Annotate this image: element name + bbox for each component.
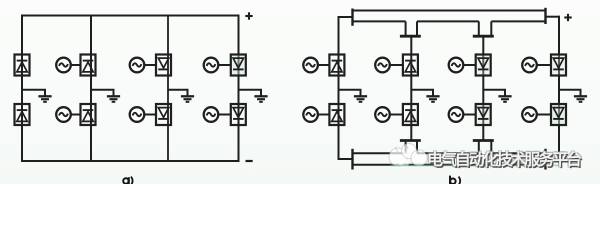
node: bottom bus left end bar: [351, 149, 353, 170]
wire: bottom tap riser left, column 2: [405, 141, 407, 154]
AC source V42 circuit b: [522, 107, 537, 122]
wire: source V42b to converter: [537, 114, 551, 116]
wire: top tap drop left, column 2: [405, 21, 407, 36]
converter box U31 circuit a (down diode): [156, 55, 171, 76]
converter box U32 circuit b (down diode): [476, 104, 491, 125]
wire: bottom tap riser right, column 3: [490, 141, 492, 154]
wire: bottom bus upper line segment 1: [353, 152, 406, 154]
wire: internal vertical bus 3 of circuit a: [167, 16, 169, 162]
ground G4 of circuit a: [239, 90, 268, 102]
ground G2 of circuit a: [91, 90, 120, 102]
converter box U31 circuit b (down diode): [476, 55, 491, 76]
converter box U22 circuit a (up diode): [81, 104, 96, 125]
wire: source V32b to converter: [463, 114, 476, 116]
AC source V21 circuit b: [375, 58, 390, 73]
wire: top tap drop right, column 3: [490, 21, 492, 36]
wire: bottom-left elbow from column 1: [338, 158, 353, 160]
label a): [123, 178, 128, 183]
AC source V32 circuit a: [130, 107, 145, 122]
ground G4 of circuit b: [559, 90, 587, 102]
node: bottom tap bar, column 2: [400, 139, 421, 142]
watermark text: [427, 146, 597, 170]
AC source V22 circuit b: [375, 107, 390, 122]
AC source V42 circuit a: [204, 107, 219, 122]
wire: source V41b to converter: [537, 64, 551, 66]
node: top bus right end bar: [544, 8, 546, 24]
converter box U12 circuit b (up diode): [329, 104, 344, 125]
wire: source V11b to converter: [318, 64, 330, 66]
wire: vertical bus column 4 circuit b: [558, 16, 560, 160]
AC source V11 circuit b: [303, 58, 318, 73]
node: top tap bar, column 3: [473, 35, 494, 38]
wire: source V41a to converter: [218, 64, 231, 66]
wire: vertical bus column 3 circuit b: [482, 36, 484, 140]
AC source V41 circuit b: [522, 58, 537, 73]
wire: source V42a to converter: [218, 114, 231, 116]
wire: source V21b to converter: [390, 64, 403, 66]
wire: internal vertical bus 2 of circuit a: [90, 16, 92, 162]
converter box U21 circuit b (up diode): [403, 55, 418, 76]
wire: source V31b to converter: [463, 64, 476, 66]
wire: bottom tap riser right, column 2: [416, 141, 418, 154]
wire: bottom bus upper line segment 3: [491, 152, 545, 154]
wire: bottom-right elbow from column 4: [546, 158, 561, 160]
wire: bottom bus lower line: [353, 164, 546, 166]
converter box U12 circuit a (up diode): [15, 104, 30, 125]
AC source V12 circuit b: [303, 107, 318, 122]
wire: source V22a to converter: [71, 114, 81, 116]
watermark green underline: [390, 165, 562, 167]
ground G3 of circuit b: [483, 90, 511, 102]
AC source V32 circuit b: [449, 107, 464, 122]
wire: source V21a to converter: [71, 64, 81, 66]
converter box U21 circuit a (up diode): [81, 55, 96, 76]
wire: top bus upper line circuit b: [353, 10, 546, 12]
converter box U42 circuit b (down diode): [551, 104, 566, 125]
ground G1 of circuit a: [22, 90, 52, 102]
label b): [449, 176, 451, 185]
wire: bottom tap riser left, column 3: [478, 141, 480, 154]
wire: vertical bus column 1 circuit b: [338, 16, 340, 160]
wire: bottom bus upper line segment 2: [417, 152, 479, 154]
converter box U22 circuit b (up diode): [403, 104, 418, 125]
wire: source V12b to converter: [318, 114, 330, 116]
wire: top bus lower line segment 1: [353, 20, 406, 22]
wire: top bus lower line segment 3: [491, 20, 545, 22]
AC source V22 circuit a: [56, 107, 71, 122]
wire: top bus lower line segment 2: [417, 20, 479, 22]
converter box U41 circuit a (down diode): [231, 55, 246, 76]
node: top tap bar, column 2: [400, 35, 421, 38]
AC source V41 circuit a: [204, 58, 219, 73]
converter box U11 circuit b (up diode): [329, 55, 344, 76]
node: top bus left end bar: [351, 9, 353, 26]
AC source V31 circuit a: [130, 58, 145, 73]
circuit a outer rectangle (DC bus frame): [22, 16, 239, 162]
node: + terminal of circuit b: [564, 14, 571, 21]
ground G3 of circuit a: [168, 90, 194, 102]
ground G1 of circuit b: [339, 90, 368, 102]
wire: source V22b to converter: [390, 114, 403, 116]
node: + terminal of circuit a: [245, 12, 252, 19]
AC source V31 circuit b: [449, 58, 464, 73]
watermark logo (white flower blobs): [389, 144, 427, 169]
converter box U41 circuit b (down diode): [551, 55, 566, 76]
node: bottom tap bar, column 3: [473, 139, 494, 142]
wire: top tap drop right, column 2: [416, 21, 418, 36]
converter box U32 circuit a (down diode): [156, 104, 171, 125]
wire: source V32a to converter: [144, 114, 156, 116]
wire: vertical bus column 2 circuit b: [410, 36, 412, 140]
wire: top-left elbow into column 1: [338, 16, 353, 18]
ground G2 of circuit b: [411, 90, 439, 102]
node: bottom bus right end bar: [544, 149, 546, 170]
AC source V21 circuit a: [56, 58, 71, 73]
wire: top tap drop left, column 3: [478, 21, 480, 36]
converter box U11 circuit a (up diode): [15, 55, 30, 76]
wire: source V31a to converter: [144, 64, 156, 66]
wire: top-right elbow into column 4: [546, 16, 561, 18]
converter box U42 circuit a (down diode): [231, 104, 246, 125]
node: - terminal of circuit a: [246, 160, 253, 162]
